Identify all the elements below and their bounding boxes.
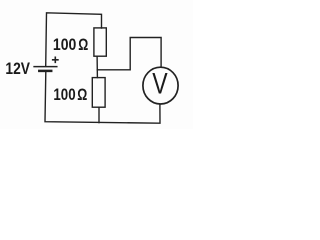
svg-text:12V: 12V [5, 60, 30, 78]
svg-text:Ω: Ω [78, 36, 88, 54]
svg-text:Ω: Ω [77, 86, 87, 104]
svg-text:100: 100 [53, 86, 75, 104]
svg-text:100: 100 [53, 36, 76, 54]
svg-text:V: V [152, 68, 168, 101]
